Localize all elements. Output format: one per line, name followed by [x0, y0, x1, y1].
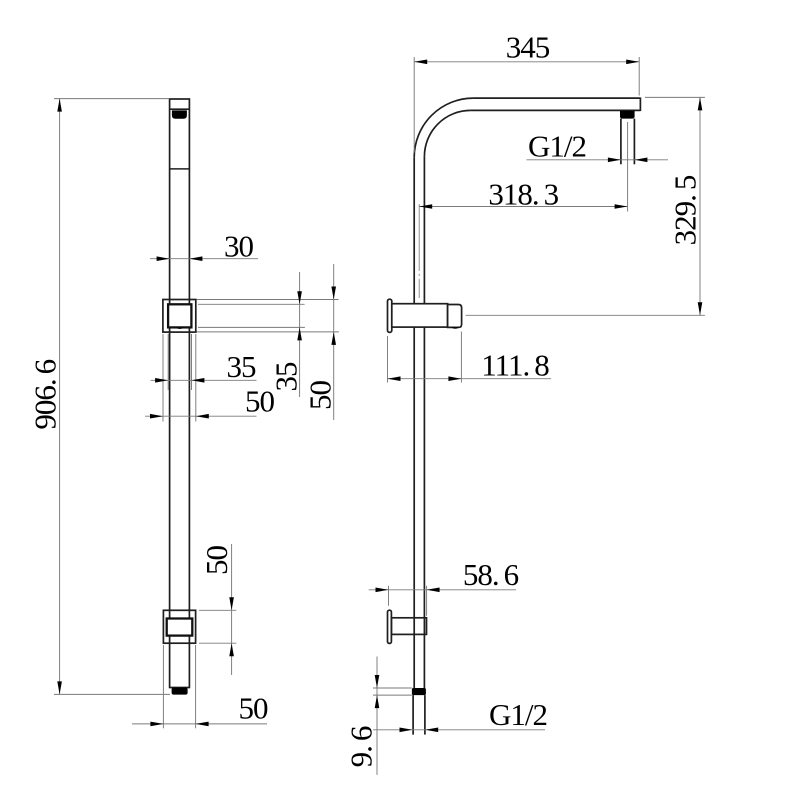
arrows: right figure — [375, 60, 703, 733]
dim 50 line — [145, 415, 257, 417]
329.5 arrows — [698, 97, 703, 110]
upper wall bracket knob — [448, 305, 462, 328]
111.8 dim line — [388, 378, 552, 380]
dim 35 line — [151, 379, 257, 381]
9.6 ext lines — [373, 687, 412, 689]
dim 906.6 line — [59, 99, 61, 695]
pipe outer bend — [414, 98, 473, 157]
58.6 arrows — [376, 588, 389, 593]
rail body — [170, 99, 190, 688]
arm right end — [639, 97, 641, 111]
arm bottom line — [471, 109, 640, 111]
svg-text:111.8: 111.8 — [481, 347, 549, 382]
rail joint line — [170, 168, 190, 170]
pipe right line lower — [423, 327, 425, 688]
bottom 50 arrows — [150, 722, 163, 727]
rail bottom black cap — [172, 688, 188, 695]
upper wall bracket body — [392, 304, 448, 327]
svg-text:58.6: 58.6 — [463, 557, 519, 592]
V2 50 dim line — [333, 264, 335, 420]
svg-text:318.3: 318.3 — [488, 177, 558, 212]
58.6 ext lines — [388, 586, 390, 606]
cap bottom line — [170, 108, 190, 110]
lower wall bracket flange — [388, 610, 392, 643]
pipe inner bend — [424, 110, 470, 156]
upper wall bracket flange — [388, 299, 392, 332]
upper slider outer frame — [163, 300, 196, 333]
pipe right line upper — [423, 157, 425, 304]
svg-text:50: 50 — [303, 381, 338, 411]
58.6 dim line — [369, 589, 516, 591]
arm top line — [473, 97, 640, 99]
pipe centerline (dash-dot) — [418, 204, 420, 298]
shower arm stub cap (black) — [620, 111, 635, 119]
bottom 50 dim line — [132, 723, 267, 725]
345 dim line — [414, 61, 639, 63]
knob bottom nub — [451, 327, 460, 329]
vertical 50 dim line at bottom mount — [231, 544, 233, 675]
bottom mount inner block — [167, 619, 193, 636]
329.5 ext lines — [645, 96, 705, 98]
G1/2 top dim line — [527, 159, 669, 161]
bottom mount right ext lines — [199, 609, 236, 611]
stub centerline — [627, 122, 629, 212]
30 arrows — [157, 256, 170, 261]
texts: left figure — [27, 229, 337, 726]
vertical 50 arrows at bottom mount — [229, 597, 234, 610]
bottom mount outer frame — [163, 610, 195, 643]
inner bottom — [198, 326, 305, 328]
318.3 arrows — [419, 204, 432, 209]
G1/2 bottom dim line — [373, 729, 545, 731]
111.8 ext lines — [387, 336, 389, 383]
pipe bottom black cap — [412, 688, 426, 695]
318.3 dim line — [419, 206, 627, 208]
50 dim arrows — [150, 414, 163, 419]
V2 50 arrows — [331, 287, 336, 300]
dim 906.6 extension lines — [54, 98, 169, 100]
upper slider bottom nub — [175, 328, 184, 329]
dim 30 line — [150, 258, 258, 260]
329.5 dim line — [699, 97, 701, 315]
pipe left line lower — [413, 327, 415, 688]
inner top — [198, 303, 305, 305]
upper bracket ext lines to the right: outer top — [197, 299, 339, 301]
svg-text:50: 50 — [199, 546, 234, 576]
svg-text:G1/2: G1/2 — [528, 129, 586, 164]
V1 35 arrows — [297, 291, 302, 304]
svg-text:50: 50 — [245, 384, 275, 419]
V1 35 dim line — [299, 272, 301, 397]
G1/2 top arrows — [608, 158, 621, 163]
texts: right figure — [344, 29, 703, 767]
stub right line — [633, 119, 635, 165]
G1/2 bottom arrows — [400, 728, 413, 733]
svg-text:345: 345 — [506, 29, 550, 64]
9.6 dim line — [376, 657, 378, 775]
inlet tube left — [412, 695, 414, 735]
svg-text:50: 50 — [239, 691, 269, 726]
111.8 arrows — [388, 376, 401, 381]
svg-text:G1/2: G1/2 — [489, 697, 547, 732]
35 dim arrows — [155, 378, 168, 383]
lower wall bracket body — [391, 618, 426, 635]
inlet tube right — [424, 695, 426, 735]
svg-text:35: 35 — [227, 349, 257, 384]
345 ext lines — [413, 57, 415, 153]
svg-text:9.6: 9.6 — [344, 726, 379, 767]
arrows: left figure — [57, 99, 336, 727]
ext lines below upper bracket — [162, 334, 164, 422]
upper slider inner block — [168, 304, 191, 327]
svg-text:30: 30 — [224, 229, 254, 264]
906.6 top arrow (up) — [57, 99, 62, 112]
outer bottom — [197, 331, 339, 333]
pipe left line upper — [413, 157, 415, 303]
906.6 bottom arrow (down) — [57, 681, 62, 694]
svg-text:329.5: 329.5 — [667, 175, 702, 245]
345 arrows — [414, 60, 427, 65]
9.6 arrows — [375, 675, 380, 688]
stub left line — [620, 119, 622, 165]
bottom 50 ext lines — [162, 645, 164, 728]
hand shower black seal — [172, 110, 187, 118]
svg-text:906.6: 906.6 — [27, 359, 62, 429]
